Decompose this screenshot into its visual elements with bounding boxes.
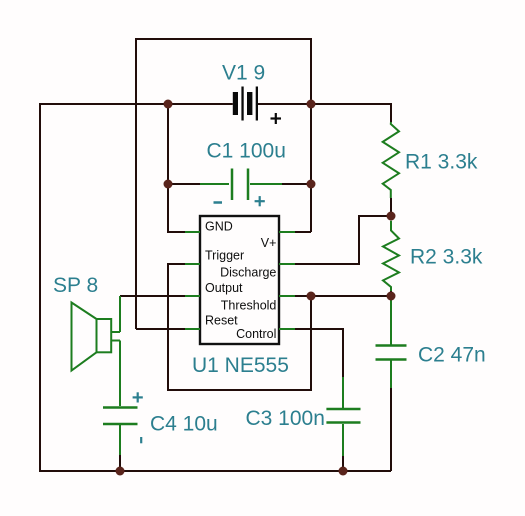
svg-text:R2 3.3k: R2 3.3k [410,246,483,269]
junction R2/C2/Threshold [387,292,396,301]
wire Output to speaker [120,295,185,297]
wire R2 bottom stub [390,291,392,296]
wire R1 bottom lead to junction [390,198,392,216]
speaker SP [72,296,121,371]
wire Trigger to Threshold loop [168,264,311,390]
capacitor C2 [376,296,407,388]
wire bottom rail (GND net) [39,470,391,472]
svg-text:C1 100u: C1 100u [207,140,286,163]
wire battery rail right to R1 [258,103,391,105]
svg-text:Trigger: Trigger [205,248,244,262]
wire left V+ drop to Reset [135,38,137,329]
svg-text:Output: Output [205,281,243,295]
op-amp U1 IC body NE555 [200,216,279,344]
resistor R2 [383,221,399,291]
svg-text:U1 NE555: U1 NE555 [192,354,289,377]
battery plus sign [271,113,282,124]
wire C4 bottom stub [119,455,121,471]
junction Trigger/Threshold [307,292,316,301]
capacitor C1 [200,169,282,201]
svg-text:GND: GND [205,219,233,233]
wire V+ pin connection [295,231,311,233]
svg-text:SP 8: SP 8 [53,274,98,297]
svg-text:C4 10u: C4 10u [150,413,218,436]
svg-text:R1 3.3k: R1 3.3k [405,150,478,173]
wire C1 right connection [282,183,311,185]
wire C3 bottom stub [342,456,344,471]
C4 polarity minus tick [140,437,142,443]
junction C1 plus [307,180,316,189]
wire right V+ drop from top to V+ pin row [310,38,312,232]
svg-text:Discharge: Discharge [220,266,276,280]
wire GND column battery- to C1- to GND pin [168,104,185,232]
pin stub Trigger [185,263,200,265]
wire Control to C3 [295,329,343,377]
junction C3/bottom rail [339,467,348,476]
pin stub V+ [279,231,295,233]
svg-text:Control: Control [236,327,276,341]
junction battery plus / V+ column [307,100,316,109]
C1 polarity plus [255,196,265,206]
wire top rail (V+ loop top) [136,38,311,40]
wire Threshold row [295,295,391,297]
junction R1/R2/Discharge [387,212,396,221]
svg-text:Threshold: Threshold [221,299,277,313]
wire Discharge to R1/R2 junction [295,216,390,264]
battery V1 [233,87,258,121]
wire left outer vertical (GND net) [39,103,41,471]
wire main battery rail left (GND net) [40,103,233,105]
wire C2 bottom to bottom rail [390,388,392,471]
svg-text:Reset: Reset [205,313,238,327]
svg-text:V1 9: V1 9 [222,62,265,85]
wire right column R1 top lead [390,103,392,122]
pin stub GND [185,231,200,233]
junction battery minus / GND column [164,100,173,109]
junction C4/bottom rail [116,467,125,476]
pin stub Reset [185,328,200,330]
pin stub Output [185,295,200,297]
junction C1 minus [164,180,173,189]
resistor R1 [383,122,399,198]
C4 polarity plus [133,392,143,402]
svg-text:V+: V+ [261,236,277,250]
svg-text:C3 100n: C3 100n [246,407,325,430]
capacitor C3 [326,377,360,456]
svg-text:C2 47n: C2 47n [418,344,486,367]
capacitor C4 [103,341,138,456]
wire Reset to V+ drop [136,328,185,330]
wire C1 left connection [168,183,200,185]
pin stub Control [279,328,295,330]
C1 polarity minus [214,201,223,204]
pin stub Discharge [279,263,295,265]
pin stub Threshold [279,295,295,297]
